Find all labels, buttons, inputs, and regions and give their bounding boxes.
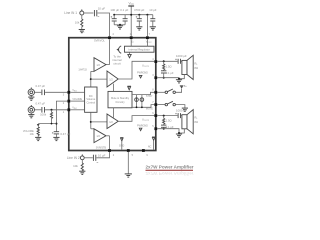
ground output network 1	[176, 80, 182, 83]
ground marker inner right	[152, 137, 155, 150]
wire Vcc rail	[114, 14, 153, 16]
node junction zobel2 top	[163, 115, 165, 117]
op-amp IC main block outline U1	[69, 38, 156, 151]
node junction speaker1 ground	[178, 78, 180, 80]
svg-text:Internal Regulator: Internal Regulator	[129, 47, 150, 51]
svg-text:1000 µF: 1000 µF	[176, 109, 187, 113]
wire cap to SVR2 pin	[96, 152, 109, 158]
wire Line IN 2 to cap	[84, 157, 93, 159]
pin pad MUTE	[154, 103, 157, 106]
pin pad bottom SVR2	[108, 149, 111, 152]
wire GND2 pin to ground	[157, 129, 179, 134]
svg-text:MUTE: MUTE	[146, 108, 153, 111]
svg-text:VCC2: VCC2	[146, 40, 153, 44]
svg-text:10k: 10k	[73, 164, 78, 168]
svg-text:2x7W Power Amplifier: 2x7W Power Amplifier	[146, 165, 194, 170]
wire switch S1 to supply	[175, 89, 181, 93]
capacitor 10uF input bottom	[93, 153, 105, 162]
connector Line IN 2	[67, 154, 84, 160]
wire Vcc terminal down to pin Vcc1	[130, 7, 132, 37]
wire VOLUME pin net	[56, 101, 67, 132]
arrow to the internal circuit	[128, 52, 131, 58]
potentiometer VOLUME 10k	[23, 124, 40, 137]
wire joining 100uF and 0.1uF bottoms	[114, 24, 125, 26]
pin label PWRGND2 with marker	[137, 125, 148, 131]
op-amp A1 channel 1 input stage	[94, 58, 106, 72]
svg-text:VOUT2: VOUT2	[142, 119, 150, 123]
connector RCA input 1	[28, 88, 34, 96]
node junction 100k tap	[51, 109, 53, 111]
wire volume box to ch2 fb	[90, 112, 92, 129]
ground volume cap	[53, 137, 59, 140]
pin label PWRGND1 with marker	[137, 72, 148, 78]
resistor 100k	[40, 110, 52, 124]
svg-text:1.5Ω: 1.5Ω	[166, 119, 172, 123]
svg-text:Line IN 1: Line IN 1	[64, 11, 77, 15]
wire Vcc1 pin to regulator	[130, 39, 132, 46]
node junction speaker2 ground	[178, 132, 180, 134]
ground marker inner GND	[120, 138, 123, 150]
svg-text:1/2: 1/2	[109, 121, 113, 124]
pin pad STBY	[154, 91, 157, 94]
svg-text:VIN1: VIN1	[72, 90, 76, 92]
svg-text:1/2: 1/2	[96, 64, 100, 67]
wire Line IN 1 to C1	[84, 12, 94, 14]
node junction channel2 fb	[90, 121, 92, 123]
wire feedback vertical channel 1	[90, 71, 92, 87]
wire bottom GND pin to ground	[127, 152, 129, 174]
wire speaker 1 return	[179, 75, 184, 79]
svg-text:Control: Control	[86, 101, 95, 105]
ground 10uF supply	[150, 27, 156, 30]
svg-text:PWRGND: PWRGND	[137, 125, 148, 128]
capacitor 0.47uF volume	[52, 132, 71, 138]
ground top input	[79, 30, 85, 33]
ground output network 2	[176, 134, 182, 137]
pin pad Vcc2	[146, 36, 149, 39]
svg-text:8Ω: 8Ω	[194, 120, 198, 124]
svg-text:10 µF: 10 µF	[98, 153, 106, 157]
arrow marker above mute box	[127, 86, 131, 90]
svg-text:VOLUME: VOLUME	[72, 99, 82, 101]
pin pad GND2	[154, 127, 157, 130]
wire A2 output to OUT1 pin	[118, 61, 154, 79]
svg-text:10k: 10k	[30, 132, 35, 136]
capacitor 0.47uF input 2	[36, 101, 46, 112]
internal regulator box	[125, 46, 155, 52]
capacitor 0.1uF	[120, 8, 128, 25]
pin pad SVR top	[108, 36, 111, 39]
capacitor 10uF supply	[149, 8, 156, 27]
svg-text:2x7W Power Amplifier: 2x7W Power Amplifier	[146, 171, 194, 176]
svg-text:100k: 100k	[40, 112, 47, 116]
wire VIN2 pin to box	[70, 109, 84, 111]
svg-text:Mute & Standby: Mute & Standby	[111, 96, 130, 100]
transistor symbol 2 in standby network	[140, 95, 144, 109]
wire STBY pin to switch	[157, 91, 165, 93]
DC volume control box	[85, 87, 97, 112]
pin pad OUT1	[154, 60, 157, 63]
wire 1000uF to speaker 2	[180, 115, 183, 117]
svg-text:VOLUME: VOLUME	[23, 129, 34, 133]
ground RCA 2	[28, 113, 34, 118]
svg-text:0.1 µF: 0.1 µF	[120, 8, 128, 12]
svg-text:Line IN 2: Line IN 2	[67, 156, 80, 160]
wire OUT2 to speaker network	[157, 115, 177, 117]
op-amp A2 channel 1 power stage	[107, 71, 118, 87]
svg-text:0.47 µF: 0.47 µF	[60, 132, 70, 136]
node junction 100k bottom	[51, 123, 53, 125]
pin pad OUT2	[154, 114, 157, 117]
wire Vcc2 pin to regulator	[146, 39, 148, 46]
wire A4 output stub	[106, 135, 110, 137]
switch S2 mute	[165, 101, 175, 106]
node Vcc terminal	[128, 1, 134, 6]
note text To the internal circuit	[112, 55, 122, 66]
wire mute box to MUTE pin	[132, 105, 154, 108]
power tap B+	[180, 86, 188, 89]
svg-text:1N4733: 1N4733	[78, 68, 87, 71]
svg-text:10k: 10k	[75, 20, 80, 24]
svg-text:4700 µF: 4700 µF	[134, 8, 145, 12]
ground bottom input	[79, 171, 85, 174]
node junction zobel1 top	[163, 60, 165, 62]
wire A1 lower input stub	[91, 70, 94, 72]
wire 1000uF to speaker 1	[180, 60, 183, 62]
svg-text:1000 µF: 1000 µF	[176, 54, 187, 58]
wire SVR pin down to A1 output	[109, 39, 111, 64]
node junction zobel1 bottom	[163, 77, 165, 79]
symbol arc tap beside regulator	[116, 46, 121, 53]
node junction channel1 fb	[90, 78, 92, 80]
wire A3 to mute box	[113, 108, 115, 118]
resistor 10k top input	[75, 15, 83, 30]
node junction shared ground	[119, 24, 121, 26]
wire cap to VIN1 pin	[45, 91, 67, 93]
wire OUT1 to speaker network	[157, 60, 177, 62]
wire cap to VIN2 pin	[45, 109, 67, 111]
wire A2 to mute box	[113, 84, 115, 92]
resistor 1.5 ohm zobel 2	[163, 116, 172, 125]
capacitor 0.47uF input 1	[36, 84, 46, 95]
capacitor 4700uF	[134, 8, 145, 27]
svg-text:1.5Ω: 1.5Ω	[166, 64, 172, 68]
svg-text:DC: DC	[89, 94, 93, 98]
wire A4 output to bottom SVR2 pin	[109, 136, 111, 149]
pin pad bottom GND	[127, 149, 130, 152]
node junction volume net	[55, 123, 57, 125]
svg-text:10 µF: 10 µF	[98, 6, 106, 10]
title 2x7W Power Amplifier	[146, 165, 194, 176]
wire mute box to STBY pin	[132, 92, 154, 94]
ground 100uF/0.1uF	[117, 25, 123, 29]
svg-text:1/2: 1/2	[96, 135, 100, 138]
svg-text:0.47 µF: 0.47 µF	[36, 101, 46, 105]
svg-text:100 µF: 100 µF	[110, 8, 119, 12]
ground mute switch	[182, 108, 188, 111]
ground 4700uF	[136, 27, 142, 30]
mute and standby circuitry box	[108, 91, 132, 107]
ground GND pin	[125, 174, 132, 177]
svg-text:SVR/STB: SVR/STB	[96, 146, 107, 149]
svg-text:circuit: circuit	[113, 62, 121, 66]
pin pad VIN1	[67, 91, 70, 94]
wire C1 to pin SVR top	[97, 13, 109, 36]
capacitor 100uF	[110, 8, 119, 25]
resistor 1.5 ohm zobel 1	[163, 61, 172, 70]
wire A1 output stub	[106, 64, 110, 66]
svg-text:1/2: 1/2	[109, 79, 113, 82]
wire GND1 pin to ground	[157, 78, 179, 80]
wire RCA2 to cap	[35, 109, 42, 111]
wire A4 input stub	[91, 128, 94, 130]
wire VIN1 pin to box	[70, 91, 84, 93]
capacitor 0.1uF zobel 2	[161, 124, 174, 129]
svg-text:VIN2: VIN2	[72, 108, 76, 110]
svg-text:0.47 µF: 0.47 µF	[36, 84, 46, 88]
speaker LS2	[182, 110, 199, 134]
svg-text:SVR/VOL: SVR/VOL	[94, 39, 105, 42]
svg-text:VOUT1: VOUT1	[142, 64, 150, 68]
transistor symbol 1 in standby network	[135, 95, 139, 109]
wire junction to A3 input	[91, 121, 107, 123]
svg-text:STBY: STBY	[146, 95, 153, 98]
wire MUTE pin to switch	[157, 104, 165, 106]
capacitor 0.1uF zobel 1	[161, 70, 174, 78]
wire switch S2 to ground	[175, 105, 185, 109]
svg-text:GND: GND	[119, 145, 125, 148]
svg-text:0.1 µF: 0.1 µF	[166, 71, 174, 75]
wire speaker 2 return	[179, 129, 184, 133]
switch S1 standby	[165, 89, 175, 94]
pin pad VIN2	[67, 108, 70, 111]
ground RCA 1	[28, 96, 34, 101]
wire VOLUME pin to box	[70, 100, 84, 102]
wire junction to A2 input	[91, 78, 107, 80]
pin pad GND1	[154, 76, 157, 79]
capacitor 1000uF output 1	[175, 54, 187, 64]
pin pad VOLUME	[67, 100, 70, 103]
svg-text:8Ω: 8Ω	[194, 66, 198, 70]
wire Vcc2 feed down	[146, 15, 148, 37]
svg-text:10 µF: 10 µF	[149, 8, 156, 12]
svg-text:Circuitry: Circuitry	[115, 100, 125, 104]
resistor 10k bottom input	[73, 160, 83, 172]
node junction zobel2 bottom	[163, 128, 165, 130]
wire RCA1 to cap	[35, 91, 42, 93]
op-amp A4 channel 2 input stage	[94, 129, 106, 143]
ground potentiometer	[35, 137, 41, 140]
wire 100k to pot and volume net	[38, 123, 56, 125]
speaker LS1	[182, 55, 199, 79]
connector Line IN 1	[64, 9, 84, 15]
svg-text:PWRGND: PWRGND	[137, 72, 148, 75]
pin pad Vcc1	[130, 36, 133, 39]
capacitor 10uF input top	[94, 6, 105, 16]
capacitor 1000uF output 2	[175, 109, 187, 119]
junction dots on Vcc rail	[113, 14, 115, 16]
svg-text:Volume: Volume	[86, 97, 95, 101]
svg-text:NC: NC	[148, 146, 152, 149]
wire A3 output to OUT2 pin	[118, 116, 154, 122]
pin pad bottom NC	[142, 149, 145, 152]
connector RCA input 2	[28, 105, 34, 113]
op-amp A3 channel 2 power stage	[107, 114, 118, 129]
